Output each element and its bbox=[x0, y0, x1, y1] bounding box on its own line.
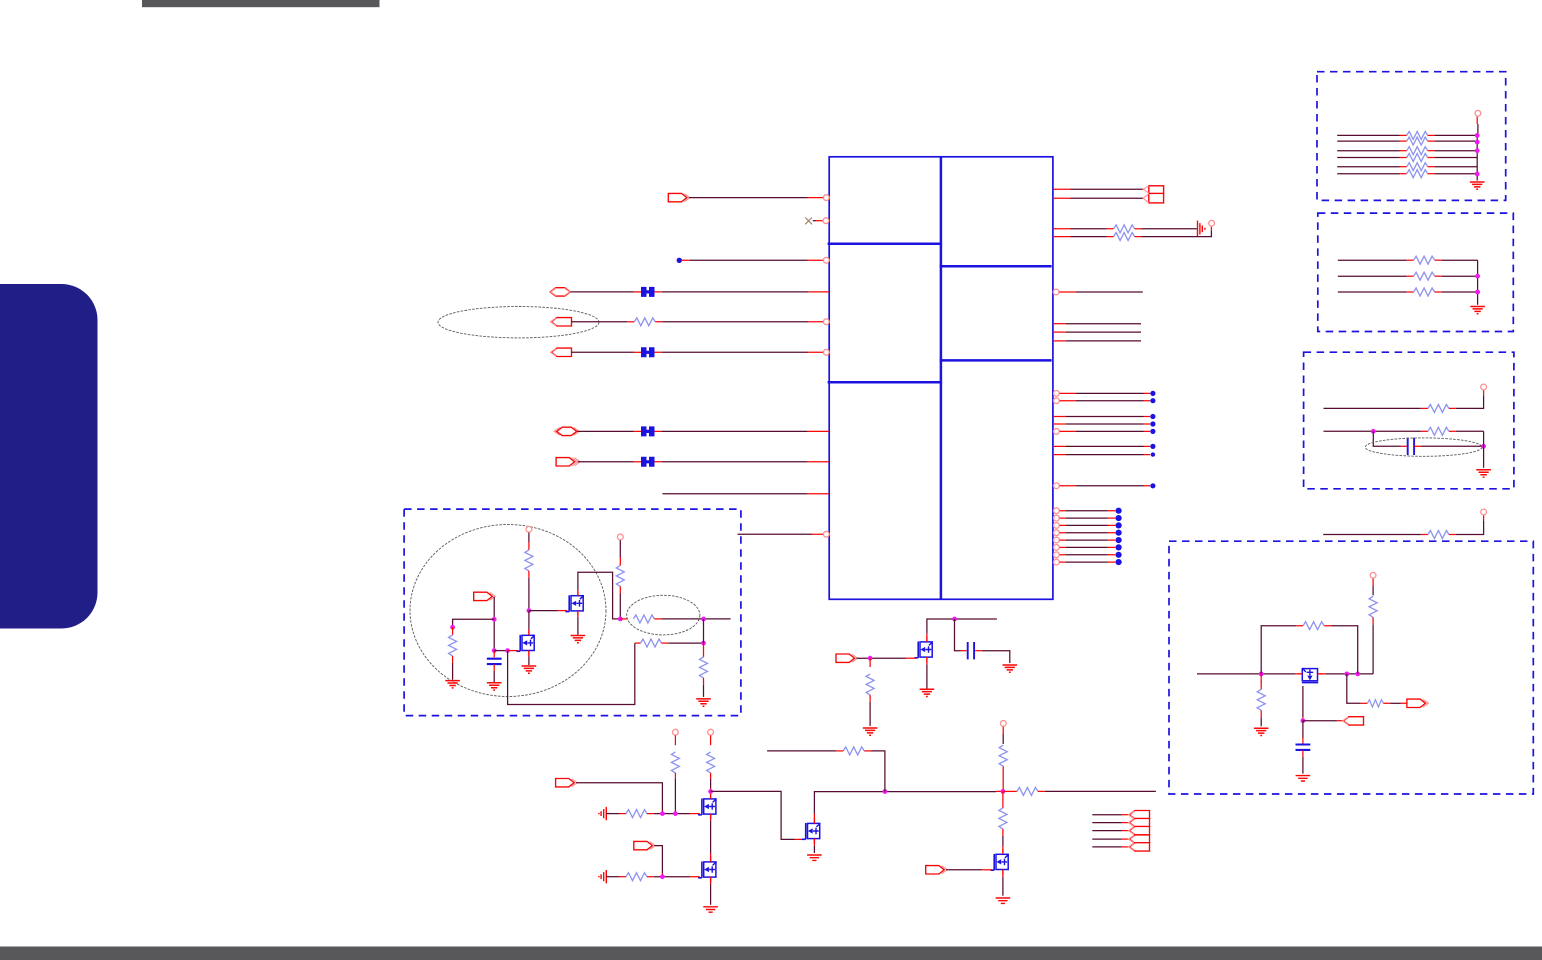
highlight ellipse bbox=[627, 595, 700, 635]
power node VP4 bbox=[1000, 721, 1006, 727]
wire pinR5 bbox=[1059, 291, 1143, 293]
resistor R9 bbox=[843, 747, 864, 755]
wire b2-3b bbox=[1435, 291, 1478, 293]
wire b1-2 bbox=[1337, 140, 1407, 142]
wire Q3 gate a bbox=[606, 813, 626, 815]
resistor R32 bbox=[616, 565, 624, 586]
no-connect X pin2 bbox=[805, 218, 812, 225]
wire pinR3b bbox=[1135, 228, 1197, 230]
wire b2 bus bbox=[1477, 260, 1479, 305]
wire Q3-Q4 bbox=[710, 814, 712, 862]
ground bbox=[920, 689, 935, 696]
wire Q4 source bbox=[710, 877, 712, 905]
highlight circle bbox=[410, 525, 606, 697]
wire b1 bus bbox=[1476, 117, 1478, 181]
wire R30 bottom bbox=[452, 656, 454, 680]
wire pinR15 bbox=[1053, 454, 1150, 456]
junction F4 bbox=[492, 648, 497, 653]
power node VP9 bbox=[526, 526, 532, 532]
wire G3 to gate bbox=[654, 846, 662, 877]
node dot R11 bbox=[1150, 414, 1155, 419]
wire b3-2a bbox=[1324, 430, 1428, 432]
top header bar bbox=[142, 0, 380, 7]
node dot R10 bbox=[1150, 398, 1155, 403]
junction F5 bbox=[505, 648, 510, 653]
pin R9 circle bbox=[1054, 391, 1060, 397]
wire pinR3a bbox=[1053, 228, 1114, 230]
resistor R22 bbox=[1428, 404, 1449, 412]
wire pin6b bbox=[655, 351, 830, 353]
power node VP7 bbox=[1481, 509, 1487, 515]
resistor R24 bbox=[1428, 531, 1449, 539]
wire pinR12 bbox=[1053, 423, 1150, 425]
wire b1 bus top bbox=[1477, 124, 1479, 135]
wire pin3 bbox=[682, 259, 830, 261]
node dot R12 bbox=[1150, 421, 1155, 426]
pin R13 circle bbox=[1054, 429, 1060, 435]
junction E1 bbox=[1259, 672, 1264, 677]
node dot R9 bbox=[1150, 391, 1155, 396]
wire pin5a bbox=[571, 321, 634, 323]
wire b1-2b bbox=[1428, 140, 1478, 142]
wire net F2 bbox=[1317, 673, 1373, 675]
pin 5 circle bbox=[823, 319, 829, 325]
port flag G2 bbox=[556, 779, 578, 787]
wire pinR2 bbox=[1053, 197, 1144, 199]
wire b3 cap b bbox=[1414, 445, 1483, 447]
ground bbox=[1470, 182, 1485, 189]
resistor R34 bbox=[700, 657, 708, 678]
ground (left-facing) bbox=[599, 870, 606, 883]
ferrite bead FB4 bbox=[641, 457, 655, 467]
wire to port2 bbox=[1303, 720, 1343, 722]
port flag IN1 bbox=[551, 318, 572, 326]
pin 3 circle bbox=[823, 257, 829, 263]
resistor R29 bbox=[525, 550, 533, 571]
junction bbox=[1475, 274, 1480, 279]
capacitor C3 bbox=[1296, 745, 1311, 750]
pin 2 circle bbox=[823, 218, 829, 224]
port flag G3 bbox=[634, 841, 656, 849]
ground (left-facing) bbox=[599, 807, 606, 820]
wire pinR11 bbox=[1053, 416, 1150, 418]
resistor R26 bbox=[1303, 622, 1324, 630]
wire R10 bottom bbox=[1002, 766, 1004, 791]
pin R22 circle bbox=[1054, 545, 1060, 551]
wire pinR23 bbox=[1060, 554, 1116, 556]
capacitor C4 bbox=[487, 659, 502, 664]
power node VP2 bbox=[673, 729, 679, 735]
transistor Q3 bbox=[698, 794, 716, 820]
highlight ellipse bbox=[438, 307, 599, 338]
wire b2-1 bbox=[1338, 259, 1414, 261]
junction bbox=[1475, 133, 1480, 138]
port flag J4 bbox=[1129, 835, 1150, 843]
wire pin4a bbox=[571, 291, 641, 293]
resistor R28 bbox=[1367, 700, 1383, 707]
node dot R17 bbox=[1116, 508, 1122, 514]
wire b1-1 bbox=[1337, 134, 1407, 136]
wire b2-3 bbox=[1338, 291, 1414, 293]
wire pinR20 bbox=[1060, 532, 1116, 534]
wire R33 left bbox=[620, 618, 627, 620]
junction B4 bbox=[883, 789, 888, 794]
wire b1-3b bbox=[1428, 150, 1478, 152]
ground bbox=[863, 728, 878, 735]
wire pinR17 bbox=[1060, 510, 1116, 512]
resistor R2 bbox=[1114, 225, 1135, 233]
wire port drop bbox=[493, 597, 495, 651]
wire pin7a bbox=[578, 430, 642, 432]
port flag BI1 bbox=[550, 288, 570, 296]
wire net F bbox=[1197, 673, 1302, 675]
wire net E b bbox=[1449, 515, 1484, 534]
wire R34 top bbox=[703, 643, 705, 657]
transistor Q1 bbox=[565, 590, 583, 616]
resistor R23 bbox=[1428, 427, 1449, 435]
ferrite bead FB1 bbox=[641, 287, 655, 297]
dashed group box 3 bbox=[1304, 352, 1514, 489]
wire b1-1b bbox=[1428, 134, 1478, 136]
capacitor C2 bbox=[1408, 438, 1414, 455]
wire b3-1b bbox=[1449, 390, 1484, 408]
wire Q1 source bbox=[577, 611, 579, 635]
wire net B bbox=[711, 791, 804, 839]
wire net C bbox=[864, 751, 885, 792]
port flag G5 bbox=[1407, 699, 1429, 707]
wire Q2 gate bbox=[508, 650, 519, 652]
wire pinR10 bbox=[1060, 400, 1151, 402]
junction A1 bbox=[952, 617, 957, 622]
junction bbox=[1475, 290, 1480, 295]
wire pin6a bbox=[571, 351, 641, 353]
left navy chapter tab bbox=[0, 284, 98, 629]
resistor R27 bbox=[1257, 689, 1265, 710]
resistor R4 bbox=[866, 674, 874, 695]
port flag OUT1 bbox=[668, 193, 690, 201]
wire R11 run bbox=[1003, 790, 1017, 792]
wire conn3 bbox=[1092, 830, 1129, 832]
power node VP10 bbox=[617, 534, 623, 540]
node dot R18 bbox=[1116, 515, 1122, 521]
resistor R20 bbox=[1414, 272, 1435, 280]
wire pinR24 bbox=[1060, 561, 1116, 563]
wire cap C1 left bbox=[955, 619, 967, 651]
wire pin5b bbox=[655, 321, 829, 323]
wire F1-Q2 bbox=[528, 611, 530, 636]
wire conn5 bbox=[1092, 846, 1129, 848]
junction B0 bbox=[708, 789, 713, 794]
wire R27 bottom bbox=[1260, 710, 1262, 726]
resistor R30 bbox=[449, 635, 457, 656]
wire pin8b bbox=[655, 461, 830, 463]
wire cap C3 top bbox=[1302, 721, 1304, 744]
pin R23 circle bbox=[1054, 552, 1060, 558]
wire pinR7 bbox=[1053, 331, 1141, 333]
node dot R21 bbox=[1116, 537, 1122, 543]
wire net E bbox=[1323, 534, 1428, 536]
junction F2 bbox=[492, 617, 497, 622]
resistor R16 bbox=[1407, 154, 1428, 162]
transistor Q4 bbox=[698, 857, 716, 883]
port flag BI2 bbox=[554, 427, 579, 435]
wire pinR13 bbox=[1060, 430, 1151, 432]
wire pinR14 bbox=[1053, 445, 1150, 447]
wire pinR22 bbox=[1060, 546, 1116, 548]
power node VP1 bbox=[1209, 220, 1215, 226]
wire b1-5b bbox=[1428, 166, 1478, 168]
wire R12 top bbox=[1002, 791, 1004, 808]
node dot R13 bbox=[1150, 429, 1155, 434]
wire net D bbox=[1038, 790, 1156, 792]
bottom footer bar bbox=[0, 947, 1542, 960]
port flag J1 bbox=[1129, 811, 1150, 819]
resistor R21 bbox=[1414, 288, 1435, 296]
resistor R13 bbox=[1407, 131, 1428, 139]
node dot R14 bbox=[1150, 444, 1155, 449]
wire b2-2 bbox=[1338, 275, 1414, 277]
wire b2-1b bbox=[1435, 259, 1478, 261]
resistor R33 bbox=[633, 615, 654, 623]
node dot R23 bbox=[1116, 552, 1122, 558]
wire net G bbox=[654, 618, 730, 620]
wire Q3 gate b bbox=[647, 813, 700, 815]
resistor R10 bbox=[999, 745, 1007, 766]
resistor R18 bbox=[1407, 170, 1428, 178]
resistor R8 bbox=[626, 873, 647, 881]
wire Q4 gate b bbox=[647, 876, 700, 878]
wire b1-3 bbox=[1337, 150, 1407, 152]
wire pinR8 bbox=[1053, 340, 1141, 342]
transistor Q6 bbox=[914, 637, 932, 663]
wire R4 top bbox=[869, 658, 871, 667]
dashed group box 4 bbox=[1169, 541, 1533, 794]
wire conn1 bbox=[1092, 814, 1129, 816]
wire pinR16 bbox=[1060, 485, 1151, 487]
wire Q7 source bbox=[1002, 870, 1004, 895]
wire R30 top bbox=[452, 627, 454, 635]
node dot R22 bbox=[1116, 544, 1122, 550]
ground bbox=[1470, 307, 1485, 314]
wire Q8 gate bbox=[1302, 686, 1304, 721]
wire b3-1a bbox=[1324, 407, 1428, 409]
wire VP2 bbox=[674, 735, 676, 745]
resistor R19 bbox=[1414, 256, 1435, 264]
ground bbox=[696, 699, 711, 706]
wire b1-6 bbox=[1337, 173, 1407, 175]
junction B3 bbox=[660, 874, 665, 879]
wire pinR18 bbox=[1060, 517, 1116, 519]
wire R4 bottom bbox=[869, 695, 871, 726]
wire Q6 gate bbox=[857, 657, 917, 659]
wire VP3 bbox=[710, 735, 712, 745]
wire VP8 bbox=[1372, 579, 1374, 596]
resistor R25 bbox=[1369, 596, 1377, 617]
ground bbox=[571, 636, 586, 643]
wire R29 bottom bbox=[528, 571, 530, 611]
ground bbox=[1476, 470, 1491, 477]
wire b2-2b bbox=[1435, 275, 1478, 277]
wire pin1 bbox=[689, 197, 829, 199]
wire Q5 source bbox=[813, 839, 815, 853]
resistor R12 bbox=[999, 808, 1007, 829]
wire b3-2b bbox=[1449, 430, 1484, 432]
wire pinR1 bbox=[1053, 188, 1144, 190]
pin R19 circle bbox=[1054, 523, 1060, 529]
transistor Q5 bbox=[802, 818, 820, 844]
wire R6 bottom bbox=[710, 773, 712, 792]
port flag DP1 (double) bbox=[1143, 186, 1163, 203]
resistor R7 bbox=[626, 810, 647, 818]
wire net C end bbox=[767, 750, 843, 752]
port flag G6 bbox=[1343, 717, 1364, 725]
ground (right-facing) bbox=[1198, 221, 1205, 237]
wire b1-5 bbox=[1337, 166, 1407, 168]
ground bbox=[996, 898, 1011, 903]
wire VP9 bbox=[528, 533, 530, 550]
transistor Q2 bbox=[516, 630, 534, 656]
pin R17 circle bbox=[1054, 508, 1060, 514]
wire pinR4a bbox=[1053, 236, 1114, 238]
resistor R31 bbox=[641, 639, 662, 647]
junction B2 bbox=[673, 811, 678, 816]
port flag OUT2 bbox=[556, 458, 580, 466]
dashed group box 2 bbox=[1318, 213, 1514, 331]
node dot N1 bbox=[677, 258, 682, 263]
wire pin9 bbox=[663, 493, 830, 495]
junction F7 bbox=[618, 617, 623, 622]
wire left branch bbox=[453, 619, 495, 627]
wire cap C3 bottom bbox=[1302, 750, 1304, 773]
junction A2 bbox=[868, 656, 873, 661]
port flag G7 bbox=[474, 592, 496, 600]
port flag IN2 bbox=[551, 348, 572, 356]
wire conn2 bbox=[1092, 822, 1129, 824]
wire cap C1 right bbox=[975, 651, 1010, 663]
ground bbox=[1254, 728, 1269, 735]
ground bbox=[487, 683, 502, 690]
wire VP10 bbox=[619, 540, 621, 565]
wire Q5 drain bbox=[814, 791, 1003, 823]
wire b3 bus bbox=[1483, 431, 1485, 468]
node dot R24 bbox=[1116, 559, 1122, 565]
pin R5 circle bbox=[1053, 289, 1059, 295]
junction bbox=[1475, 140, 1480, 145]
wire R32 bottom bbox=[619, 586, 621, 619]
highlight ellipse bbox=[1365, 438, 1482, 456]
wire pin7b bbox=[655, 430, 830, 432]
port flag J5 bbox=[1129, 843, 1150, 851]
ground bbox=[1296, 776, 1311, 781]
junction E4 bbox=[1301, 718, 1306, 723]
junction F6 bbox=[701, 641, 706, 646]
wire Q1 gate bbox=[529, 610, 567, 612]
resistor R15 bbox=[1407, 147, 1428, 155]
wire R31 right bbox=[662, 642, 704, 644]
resistor R1 bbox=[634, 318, 655, 326]
node dot R19 bbox=[1116, 522, 1122, 528]
wire pinR6 bbox=[1053, 323, 1141, 325]
wire R27 top bbox=[1260, 674, 1262, 689]
wire Q6 source bbox=[926, 657, 928, 689]
ground bbox=[445, 681, 460, 688]
wire R25 bottom bbox=[1372, 617, 1374, 674]
wire net A bbox=[927, 619, 997, 641]
IC U1 bbox=[828, 157, 1053, 600]
wire b3 cap a bbox=[1373, 431, 1407, 446]
transistor Q8 bbox=[1297, 668, 1323, 683]
wire F4-F5 bbox=[494, 650, 507, 652]
wire pinR19 bbox=[1060, 524, 1116, 526]
wire b1-4 bbox=[1337, 157, 1407, 159]
resistor R6 bbox=[707, 752, 715, 773]
pin R18 circle bbox=[1054, 515, 1060, 521]
junction E2 bbox=[1344, 672, 1349, 677]
wire pinR4b bbox=[1135, 227, 1212, 237]
power node VP8 bbox=[1370, 572, 1376, 578]
wire to port b bbox=[1383, 702, 1407, 704]
wire pin8a bbox=[578, 461, 641, 463]
wire pin2 bbox=[813, 220, 830, 222]
junction bbox=[1475, 172, 1480, 177]
wire R5 bottom bbox=[674, 773, 676, 814]
wire Q1 drain bbox=[578, 572, 620, 619]
pin R21 circle bbox=[1054, 537, 1060, 543]
port flag J3 bbox=[1129, 826, 1150, 834]
port flag J2 bbox=[1129, 818, 1150, 826]
pin R16 circle bbox=[1054, 483, 1060, 489]
resistor R17 bbox=[1407, 163, 1428, 171]
wire F8-F6 bbox=[703, 619, 705, 643]
ground bbox=[703, 907, 718, 912]
junction F8 bbox=[701, 617, 706, 622]
power node VP5 bbox=[1475, 110, 1481, 116]
ferrite bead FB3 bbox=[641, 426, 655, 436]
pin 6 circle bbox=[823, 349, 829, 355]
junction E3 bbox=[1355, 672, 1360, 677]
wire pin10 bbox=[738, 533, 830, 535]
wire VP4 bbox=[1002, 727, 1004, 744]
ground bbox=[1003, 665, 1018, 672]
wire b1-6b bbox=[1428, 173, 1478, 175]
wire to port bbox=[1347, 674, 1368, 703]
pin R20 circle bbox=[1054, 530, 1060, 536]
resistor R5 bbox=[671, 752, 679, 773]
wire b1-4b bbox=[1428, 157, 1478, 159]
wire bottom L bbox=[508, 643, 641, 704]
pin 10 circle bbox=[823, 531, 829, 537]
wire R12 bottom bbox=[1002, 829, 1004, 853]
wire Q4 gate a bbox=[606, 876, 626, 878]
wire Q2 source bbox=[528, 651, 530, 666]
pin R10 circle bbox=[1054, 398, 1060, 404]
resistor R3 bbox=[1114, 233, 1135, 241]
node dot R20 bbox=[1116, 530, 1122, 536]
transistor Q7 bbox=[990, 849, 1008, 875]
junction D2 bbox=[1481, 444, 1486, 449]
node dot R15 bbox=[1151, 452, 1155, 456]
wire Q7 gate bbox=[946, 869, 992, 871]
ground bbox=[522, 666, 537, 673]
node dot R16 bbox=[1150, 483, 1155, 488]
power node VP3 bbox=[708, 729, 714, 735]
dashed group box 1 bbox=[1317, 72, 1506, 201]
junction C1 bbox=[1001, 789, 1006, 794]
wire loop bbox=[1261, 626, 1358, 674]
wire G2 to gate bbox=[576, 783, 662, 814]
power node VP6 bbox=[1481, 384, 1487, 390]
wire cap C4 top bbox=[493, 651, 495, 658]
